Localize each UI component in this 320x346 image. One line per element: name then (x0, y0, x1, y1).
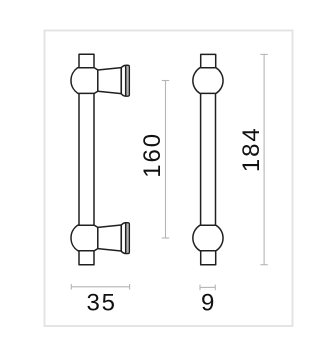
dimension line 9 (200, 286, 215, 288)
side view: handle bar (78, 93, 80, 225)
dimension line 160 (165, 81, 167, 239)
side view: bottom flange (121, 223, 129, 254)
side view: top end square (79, 54, 94, 68)
front view: bottom ball (193, 225, 223, 251)
side view: top flange (121, 65, 129, 96)
side view: bottom flange shaded edge (127, 224, 129, 253)
svg-text:35: 35 (86, 290, 117, 317)
dimension line 184 (263, 54, 265, 264)
side view: bottom ball (71, 225, 98, 251)
side view: top flange shaded edge (127, 66, 129, 95)
side view: bottom end square (79, 251, 94, 265)
side view: top cone post (98, 68, 121, 94)
svg-text:184: 184 (238, 126, 265, 172)
side view: bottom cone post (98, 225, 121, 251)
front view: top end square (201, 54, 216, 67)
front view: bottom end square (201, 251, 216, 265)
svg-text:9: 9 (201, 290, 216, 317)
front view: top ball (193, 68, 223, 94)
front view: handle bar (200, 93, 202, 225)
dimension line 35 (71, 286, 129, 288)
side view: top ball (71, 68, 98, 94)
side view: top flange face line (125, 66, 127, 96)
side view: bottom flange face line (125, 223, 127, 253)
svg-text:160: 160 (139, 132, 166, 178)
